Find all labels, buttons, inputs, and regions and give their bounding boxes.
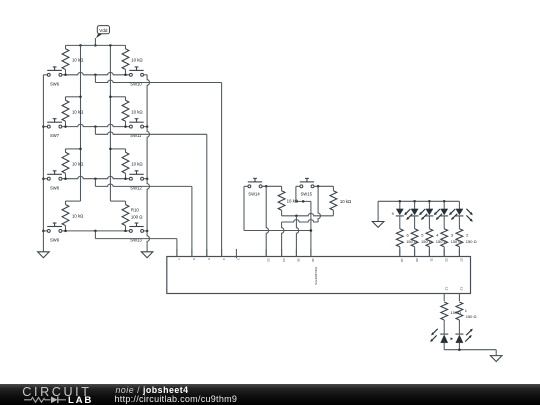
IC pin 5	[207, 249, 211, 260]
LED D1	[392, 201, 404, 216]
junction wiper SW15-left	[302, 200, 305, 203]
LED D3 arrows	[419, 209, 427, 220]
svg-text:34: 34	[282, 258, 286, 262]
wire resistor tap col2 row4	[110, 201, 125, 204]
wire row2 net	[62, 124, 130, 126]
junction row4 resistor col2	[124, 230, 127, 233]
junction wiper node row	[310, 229, 313, 232]
IC pin 35	[296, 249, 300, 262]
wire row3 to IC pin	[95, 179, 191, 257]
wire row2 to IC pin	[95, 127, 206, 257]
switch SW9	[47, 223, 62, 243]
junction rail bus2	[109, 44, 112, 47]
svg-text:33: 33	[266, 258, 270, 262]
wire wiper to IC pin	[310, 213, 312, 256]
potentiometer 10k	[278, 186, 299, 216]
wire row3 left stub	[43, 178, 47, 180]
switch SW12	[129, 171, 143, 191]
junction SW14-left wiper node	[310, 229, 313, 232]
svg-text:10 kΩ: 10 kΩ	[131, 58, 143, 63]
svg-text:12: 12	[444, 287, 448, 291]
wire Vdd bus col2	[109, 45, 111, 201]
wire SW15 left drop	[296, 186, 300, 201]
svg-text:20: 20	[415, 258, 419, 262]
resistor R4 10k col1 row4	[62, 201, 84, 231]
svg-text:SW15: SW15	[301, 192, 313, 197]
svg-text:Vdd: Vdd	[99, 28, 108, 33]
LED D3	[425, 201, 433, 216]
LED bottom right	[455, 334, 463, 350]
IC pin 20	[415, 249, 419, 262]
junction tap col1 row2	[79, 96, 82, 99]
junction row3 resistor col2	[124, 177, 127, 180]
svg-text:13: 13	[460, 287, 464, 291]
wire row1 left stub	[43, 74, 47, 76]
svg-text:10 kΩ: 10 kΩ	[72, 109, 84, 114]
junction row4 jog	[94, 230, 97, 233]
IC pin 27	[459, 249, 463, 262]
junction SW14 right	[265, 185, 268, 188]
wire SW14 right	[262, 185, 282, 187]
IC pin 21	[429, 249, 433, 262]
junction Vdd rail	[94, 44, 97, 47]
wire resistor tap col1 row4	[66, 201, 81, 204]
wire LED cathodes to ground	[444, 350, 496, 356]
LED D5 arrows	[449, 209, 457, 220]
switch SW14	[248, 178, 262, 196]
wire Vdd bus col1	[80, 45, 82, 201]
junction row1 resistor col2	[124, 74, 127, 77]
svg-text:SW9: SW9	[50, 238, 60, 243]
ground bottom right	[490, 356, 502, 362]
junction ground bus right row4	[146, 230, 149, 233]
wire row4 right stub	[144, 230, 148, 232]
wire row2 right stub	[144, 126, 148, 128]
svg-text:150 Ω: 150 Ω	[466, 314, 477, 319]
wire SW15 node to IC pin	[282, 222, 284, 257]
switch SW8	[47, 171, 62, 191]
svg-text:SW14: SW14	[248, 192, 260, 197]
switch SW6	[47, 67, 62, 87]
junction row2 resistor col1	[64, 125, 67, 128]
switch SW15	[300, 178, 314, 196]
resistor R1 10k col1 row1	[62, 45, 84, 74]
wire row3 right stub	[144, 178, 148, 180]
svg-text:27: 27	[460, 258, 464, 262]
resistor 150 ohm 4	[426, 216, 447, 257]
svg-text:SW8: SW8	[50, 185, 60, 190]
IC pin 33	[266, 249, 270, 262]
wire SW14 left	[244, 186, 248, 230]
LED bottom left	[440, 334, 448, 350]
wire resistor tap col1 row3	[66, 149, 81, 152]
switch SW13	[129, 223, 143, 243]
resistor 150 ohm bottom right R1	[456, 302, 476, 334]
switch SW10	[129, 67, 143, 87]
LED bottom left arrows	[430, 329, 438, 342]
svg-text:10 kΩ: 10 kΩ	[131, 162, 143, 167]
resistor R3 10k col1 row3	[62, 149, 84, 179]
footer project name	[116, 385, 189, 395]
IC pin 22	[444, 249, 448, 262]
junction ground bus right row3	[146, 177, 149, 180]
svg-text:22: 22	[444, 258, 448, 262]
wire row4 left stub	[43, 230, 47, 232]
wire SW14 left to node	[244, 230, 311, 232]
junction tap col1 row3	[79, 148, 82, 151]
IC pin 12 bottom	[444, 287, 448, 301]
wire top Vdd rail	[66, 44, 126, 46]
LED D5	[455, 201, 463, 216]
IC pin 7	[177, 249, 181, 260]
junction rail bus1	[79, 44, 82, 47]
wire resistor bottoms	[282, 213, 334, 215]
junction tap col2 row3	[109, 148, 112, 151]
wire SW15 node across	[282, 220, 319, 222]
svg-text:10 kΩ: 10 kΩ	[72, 214, 84, 219]
resistor R2 10k col1 row2	[62, 97, 84, 127]
ground col2 block	[141, 252, 153, 258]
IC pin 19	[400, 249, 404, 262]
IC pin 13 bottom	[459, 287, 463, 301]
LED D5 right arrows	[466, 209, 472, 222]
LED D4 arrows	[434, 209, 442, 220]
junction LED rail 2	[413, 200, 416, 203]
LED D2 arrows	[404, 209, 412, 220]
IC pin 4	[222, 249, 226, 260]
junction row3 resistor col1	[64, 177, 67, 180]
IC U1 PIC16F877A body	[167, 257, 471, 294]
wire pot bottom to IC pin	[296, 216, 298, 257]
junction ground bus right row2	[146, 125, 149, 128]
svg-text:10 kΩ: 10 kΩ	[340, 199, 352, 204]
junction row2 resistor col2	[124, 125, 127, 128]
wire SW15 right	[314, 185, 333, 187]
footer bar	[0, 384, 540, 405]
wire SW14 node to IC pin	[266, 186, 268, 256]
svg-text:36: 36	[311, 258, 315, 262]
LED D4	[440, 201, 448, 216]
wire SW15 node down	[318, 186, 320, 222]
svg-text:9: 9	[392, 211, 394, 216]
wire row1 to IC pin	[95, 75, 221, 257]
junction LED rail 3	[428, 200, 431, 203]
junction row4 resistor col1	[64, 230, 67, 233]
IC pin 3	[236, 249, 240, 260]
svg-text:SW7: SW7	[50, 133, 60, 138]
junction tap col2 row2	[109, 96, 112, 99]
junction row2 jog	[94, 125, 97, 128]
wire row1 net	[62, 72, 130, 74]
wire row1 right stub	[144, 74, 148, 76]
IC pin 36	[311, 249, 315, 262]
resistor 10k col2 row2	[122, 97, 143, 127]
resistor 150 ohm 6	[396, 216, 417, 257]
svg-text:19: 19	[400, 258, 404, 262]
svg-text:10 kΩ: 10 kΩ	[131, 109, 143, 114]
svg-text:PIC16F877A: PIC16F877A	[314, 267, 318, 286]
svg-text:150 Ω: 150 Ω	[466, 239, 477, 244]
junction LED rail 4	[443, 200, 446, 203]
ground left block	[38, 252, 50, 258]
junction ground bus left row2	[42, 125, 45, 128]
svg-text:SW6: SW6	[50, 81, 60, 86]
junction row1 resistor col1	[64, 74, 67, 77]
resistor R10 100 ohm	[122, 201, 143, 231]
wire rail to ground	[377, 201, 379, 221]
resistor 150 ohm bottom left	[441, 302, 461, 334]
junction LED rail 1	[399, 200, 402, 203]
svg-text:10 kΩ: 10 kΩ	[72, 58, 84, 63]
svg-text:21: 21	[430, 258, 434, 262]
junction SW15 right	[317, 185, 320, 188]
svg-text:R10: R10	[131, 208, 139, 213]
junction row1 jog	[94, 74, 97, 77]
LED D2	[411, 201, 419, 216]
wire row3 net	[62, 176, 130, 178]
IC pin 34	[282, 249, 286, 262]
resistor 10k col2 row3	[122, 149, 143, 179]
switch SW11	[129, 119, 143, 139]
wire Vdd to rail	[94, 38, 96, 45]
svg-text:100 Ω: 100 Ω	[131, 215, 143, 220]
resistor 10k col2 row1	[122, 45, 143, 74]
wire ground bus right	[147, 75, 149, 252]
resistor 150 ohm 3	[441, 216, 462, 257]
LED bottom right arrows	[465, 329, 473, 342]
wire row4 net	[62, 230, 130, 232]
resistor 150 ohm 5	[411, 216, 432, 257]
footer url	[115, 394, 238, 404]
junction ground bus left row3	[42, 177, 45, 180]
IC pin 6	[192, 249, 196, 260]
wire resistor tap col2 row2	[110, 97, 125, 100]
wire ground bus left	[42, 75, 44, 252]
svg-text:35: 35	[297, 258, 301, 262]
wire resistor tap col1 row2	[66, 97, 81, 100]
CircuitLab logo	[0, 384, 110, 405]
LED bottom designator mark	[451, 337, 453, 340]
junction ground bus left row4	[42, 230, 45, 233]
junction pot bottom node	[295, 215, 298, 218]
switch SW7	[47, 119, 62, 139]
wire row2 left stub	[43, 126, 47, 128]
junction bottom LEDs	[458, 348, 461, 351]
wire LED anode rail	[378, 200, 459, 202]
resistor 150 ohm 2	[456, 216, 477, 257]
wire resistor tap col2 row3	[110, 149, 125, 152]
svg-text:10 kΩ: 10 kΩ	[72, 162, 84, 167]
junction row3 jog	[94, 177, 97, 180]
resistor 10k SW15	[330, 186, 352, 216]
wire row4 to IC pin	[95, 231, 176, 257]
ground LED rail	[372, 222, 384, 228]
potentiometer wiper arrow	[295, 200, 311, 213]
power flag Vdd	[96, 26, 110, 39]
